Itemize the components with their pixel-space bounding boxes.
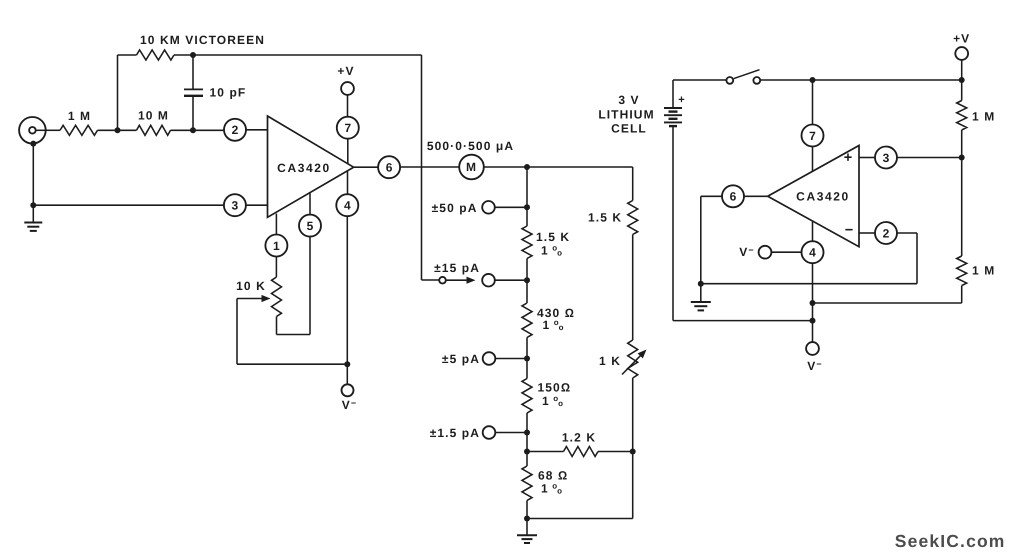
pin 3 number <box>232 199 239 213</box>
node (V- rail tap lower) <box>810 318 816 324</box>
resistor 1 M (upper divider) <box>957 80 967 158</box>
svg-text:LITHIUM: LITHIUM <box>598 108 654 122</box>
node (divider midpoint) <box>959 155 965 161</box>
svg-text:1: 1 <box>273 239 280 253</box>
value label 10 K <box>236 279 266 293</box>
resistor 1 M (lower divider) <box>957 158 967 304</box>
label CA3420 (U2) <box>796 190 850 204</box>
svg-text:10 pF: 10 pF <box>210 86 247 100</box>
battery 3 V lithium cell <box>664 80 682 321</box>
terminal +-1.5 pA <box>483 426 527 439</box>
resistor 1 M (input) <box>60 125 98 135</box>
label +-50 pA <box>432 201 478 215</box>
resistor 430 ohm (ladder) <box>522 303 532 338</box>
pin 3 (U1 non-inverting input) <box>224 194 268 216</box>
label CA3420 (U1) <box>277 161 331 175</box>
value label 430 ohm <box>537 306 575 320</box>
wire <box>812 221 814 241</box>
wire (top rail) <box>760 79 962 81</box>
wire <box>632 235 634 341</box>
svg-text:1.5 K: 1.5 K <box>588 211 622 225</box>
potentiometer 10 K wiper arrow <box>237 295 271 302</box>
battery + sign <box>678 94 684 106</box>
node (pin 7 tap) <box>810 77 816 83</box>
svg-text:1.5 K: 1.5 K <box>536 230 570 244</box>
svg-text:+V: +V <box>953 32 970 46</box>
ground (ladder) <box>517 519 537 544</box>
label +-5 pA <box>442 352 480 366</box>
wire <box>526 413 528 466</box>
node (+-1.5 pA tap) <box>524 430 530 436</box>
pin 7 (U2 V+) <box>802 125 824 147</box>
wire <box>526 167 528 226</box>
svg-text:68 Ω: 68 Ω <box>538 469 568 483</box>
svg-text:±1.5 pA: ±1.5 pA <box>430 426 480 440</box>
label +-1.5 pA <box>430 426 480 440</box>
svg-text:2: 2 <box>232 123 239 137</box>
range switch contact <box>439 277 446 284</box>
node (ladder top) <box>524 164 530 170</box>
value label 1 K <box>599 354 621 368</box>
wire <box>347 95 349 117</box>
node (ground rail junction) <box>698 281 704 287</box>
capacitor 10 pF <box>184 55 203 130</box>
svg-text:3: 3 <box>232 199 239 213</box>
label +V (left) <box>337 64 354 78</box>
svg-text:2: 2 <box>883 226 890 240</box>
range switch wiper arrow <box>446 277 476 284</box>
svg-text:150Ω: 150Ω <box>538 381 572 395</box>
ground (right circuit) <box>691 284 711 311</box>
tolerance label 1 % <box>541 244 562 258</box>
svg-text:5: 5 <box>307 219 314 233</box>
wire (ground line to pin 3) <box>33 204 223 206</box>
terminal +-50 pA <box>482 201 527 214</box>
node (ladder bottom) <box>524 516 530 522</box>
pin 5 number <box>307 219 314 233</box>
resistor 10 KM VICTOREEN (feedback) <box>118 50 194 60</box>
pin 2 number (U2) <box>883 226 890 240</box>
op-amp U2 CA3420 <box>768 146 859 247</box>
value label 1.5 K (right branch) <box>588 211 622 225</box>
pin 2 number <box>232 123 239 137</box>
resistor 10 M <box>137 125 171 135</box>
node (+-5 pA tap) <box>524 356 530 362</box>
terminal V- (right bottom) <box>806 342 819 355</box>
resistor 1.5 K (right branch) <box>628 201 638 235</box>
label LITHIUM <box>598 108 654 122</box>
tolerance label 1 % <box>541 482 562 496</box>
node (10M/cap/pin2 junction) <box>190 127 196 133</box>
node (1.2 K tap) <box>524 449 530 455</box>
pin 1 number <box>273 239 280 253</box>
node (1.2 K right junction) <box>630 449 636 455</box>
label V- (U2 supply) <box>739 245 754 259</box>
wire <box>812 263 814 342</box>
pin 1 (U1 offset null) <box>265 214 287 257</box>
node <box>30 141 36 147</box>
wire <box>526 501 528 519</box>
meter letter M <box>466 160 476 174</box>
wire <box>46 129 60 131</box>
wire <box>309 237 311 335</box>
resistor 68 ohm (ladder) <box>522 466 532 501</box>
svg-text:3 V: 3 V <box>618 93 639 107</box>
terminal V- (U2 supply) <box>759 246 802 259</box>
svg-text:CA3420: CA3420 <box>796 190 850 204</box>
pin 3 (U2 non-inverting input) <box>859 147 897 169</box>
pin 3 number (U2) <box>883 151 890 165</box>
svg-text:1 M: 1 M <box>972 264 995 278</box>
pin 5 (U1 offset null) <box>299 193 321 236</box>
svg-text:4: 4 <box>344 199 351 213</box>
svg-text:6: 6 <box>386 161 393 175</box>
pin 6 (U2 output) <box>722 185 768 207</box>
svg-text:10 K: 10 K <box>236 279 266 293</box>
wire (V- rail to divider) <box>813 302 962 304</box>
value label 1 M (lower) <box>972 264 995 278</box>
pin 4 number (U2) <box>809 246 816 260</box>
label V- (right bottom) <box>807 359 822 373</box>
terminal +-5 pA <box>483 352 527 365</box>
ground (input) <box>24 205 42 231</box>
value label 1.2 K <box>562 431 596 445</box>
pin 4 (U1 V-) <box>336 194 358 216</box>
tolerance label 1 % <box>543 318 564 332</box>
pin 4 (U2 V-) <box>802 241 824 263</box>
svg-text:10 KM VICTOREEN: 10 KM VICTOREEN <box>140 33 265 47</box>
wire <box>400 166 459 168</box>
label 3 V <box>618 93 639 107</box>
node (V- rail tap upper) <box>810 300 816 306</box>
node (1M/10M/feedback junction) <box>115 127 121 133</box>
svg-text:6: 6 <box>730 190 737 204</box>
node (V- junction) <box>344 361 350 367</box>
terminal +-15 pA <box>482 274 527 287</box>
wire <box>526 259 528 304</box>
svg-text:M: M <box>466 160 476 174</box>
pin 2 (U2 inverting input) <box>859 222 897 244</box>
svg-text:+: + <box>844 150 852 166</box>
wire (output to ground rail) <box>701 196 722 283</box>
svg-text:7: 7 <box>809 129 816 143</box>
svg-text:CA3420: CA3420 <box>277 161 331 175</box>
value label 10 pF <box>210 86 247 100</box>
wire (to right branch) <box>527 166 633 168</box>
wire (battery negative rail) <box>673 320 813 322</box>
input BNC jack J1 <box>19 117 46 144</box>
wire <box>347 139 349 164</box>
svg-text:1 K: 1 K <box>599 354 621 368</box>
wire <box>346 216 348 384</box>
wire <box>117 55 119 130</box>
svg-text:1.2 K: 1.2 K <box>562 431 596 445</box>
resistor 1.5 K (ladder) <box>522 226 532 259</box>
wire <box>673 79 726 81</box>
U2 - input mark <box>845 223 853 239</box>
svg-text:4: 4 <box>809 246 816 260</box>
meter M 500-0-500 uA <box>459 155 484 180</box>
svg-text:±15 pA: ±15 pA <box>434 261 480 275</box>
resistor 1.2 K <box>527 447 633 457</box>
wire (BNC shield drop) <box>32 144 34 206</box>
svg-text:7: 7 <box>344 121 351 135</box>
resistor 150 ohm (ladder) <box>522 379 532 414</box>
terminal V- (left) <box>342 384 354 396</box>
wire <box>171 129 225 131</box>
label CELL <box>611 122 647 136</box>
wire <box>812 147 814 172</box>
svg-text:500·0·500 μA: 500·0·500 μA <box>427 139 514 153</box>
svg-text:±5 pA: ±5 pA <box>442 352 480 366</box>
svg-text:SeekIC.com: SeekIC.com <box>895 531 1006 551</box>
pin 6 number (U2) <box>730 190 737 204</box>
potentiometer 10 K (offset null) <box>272 277 282 317</box>
wire <box>275 257 277 278</box>
label 10 KM VICTOREEN <box>140 33 265 47</box>
wire (pin 2 feedback loop) <box>701 233 917 284</box>
wire <box>897 157 962 159</box>
pin 7 number (U2) <box>809 129 816 143</box>
value label 150 ohm <box>538 381 572 395</box>
value label 1 M <box>68 109 91 123</box>
value label 68 ohm <box>538 469 568 483</box>
node (+-50 pA tap) <box>524 204 530 210</box>
wire <box>484 166 527 168</box>
value label 10 M <box>138 109 169 123</box>
svg-text:3: 3 <box>883 151 890 165</box>
value label 1 M (upper) <box>972 110 995 124</box>
svg-text:1 M: 1 M <box>972 110 995 124</box>
svg-text:1 M: 1 M <box>68 109 91 123</box>
pin 7 number <box>344 121 351 135</box>
pin 4 number <box>344 199 351 213</box>
svg-text:10 M: 10 M <box>138 109 169 123</box>
node (feedback/cap junction) <box>190 52 196 58</box>
wire <box>347 171 349 194</box>
pin 2 (U1 inverting input) <box>224 119 268 141</box>
U2 + input mark <box>844 150 852 166</box>
wire (wiper to V- rail) <box>237 299 347 365</box>
wire <box>812 80 814 125</box>
label V- (left) <box>342 398 357 412</box>
op-amp U1 CA3420 <box>268 116 354 217</box>
node (+-15 pA tap) <box>524 277 530 283</box>
wire (bottom tie) <box>527 518 633 520</box>
svg-text:CELL: CELL <box>611 122 647 136</box>
terminal +V (right) <box>955 47 968 80</box>
watermark SeekIC.com <box>895 531 1006 551</box>
node (+V rail corner) <box>959 77 965 83</box>
pin 6 number <box>386 161 393 175</box>
tolerance label 1 % <box>542 394 563 408</box>
wire <box>98 129 137 131</box>
node <box>30 202 36 208</box>
wire <box>632 378 634 519</box>
svg-text:±50 pA: ±50 pA <box>432 201 478 215</box>
value label 1.5 K <box>536 230 570 244</box>
svg-text:−: − <box>845 223 853 239</box>
svg-text:+V: +V <box>337 64 354 78</box>
potentiometer 1 K <box>622 340 647 378</box>
switch S1 (on/off) <box>726 70 760 84</box>
wire (feedback to range switch) <box>193 55 439 280</box>
pin 6 (U1 output) <box>354 156 401 178</box>
svg-text:+: + <box>678 94 684 106</box>
label +V (right) <box>953 32 970 46</box>
wire <box>632 167 634 201</box>
wire <box>526 338 528 379</box>
wire (pot bottom to pin 5) <box>277 317 311 335</box>
pin 7 (U1 V+) <box>337 117 359 139</box>
label 500-0-500 uA <box>427 139 514 153</box>
terminal +V (left) <box>341 82 354 95</box>
label +-15 pA <box>434 261 480 275</box>
